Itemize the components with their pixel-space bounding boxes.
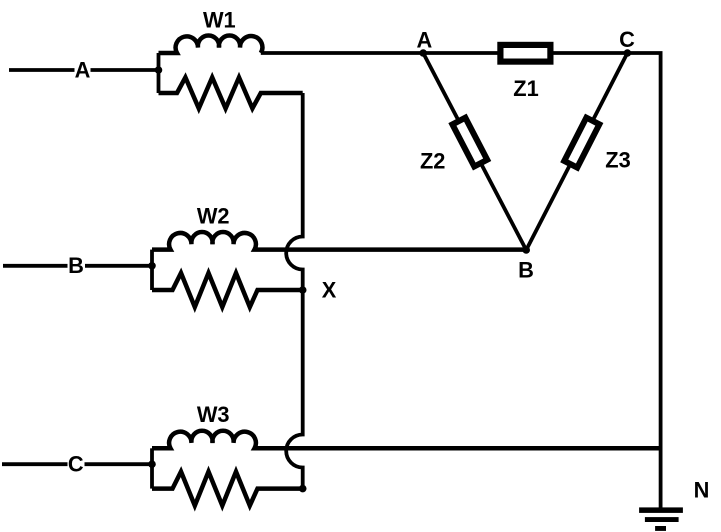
impedance Z2	[452, 118, 487, 167]
svg-text:B: B	[518, 257, 534, 282]
svg-text:Z3: Z3	[605, 148, 630, 173]
svg-text:Z2: Z2	[420, 149, 445, 174]
node junction dot at W3 resistor output	[299, 485, 307, 493]
wire phase C input right segment	[85, 462, 153, 466]
wire W3 left stub	[150, 448, 154, 488]
wattmeter W3 potential resistor	[152, 472, 303, 506]
ground symbol bar 3	[655, 526, 666, 531]
wire top bus from W1 coil to right corner and down to ground	[261, 53, 661, 508]
node junction dot at W2 input	[148, 262, 156, 270]
ground symbol bar 1	[639, 507, 683, 513]
wattmeter W3 current coil and wire to right bus	[152, 431, 661, 449]
wire W1 left stub	[157, 53, 161, 93]
ground symbol bar 2	[645, 517, 679, 522]
svg-text:X: X	[322, 278, 337, 303]
svg-text:Z1: Z1	[513, 76, 538, 101]
node dot B (delta)	[522, 246, 530, 254]
svg-text:N: N	[694, 477, 710, 502]
svg-text:C: C	[68, 452, 84, 477]
node junction dot X	[299, 286, 307, 294]
wattmeter W1 current coil	[159, 35, 263, 53]
wire phase C input left segment	[2, 462, 68, 466]
wattmeter W1 potential resistor	[159, 77, 303, 108]
wattmeter W2 current coil and wire to node B	[152, 232, 526, 250]
wire phase B input right segment	[85, 264, 152, 268]
svg-text:A: A	[75, 57, 91, 82]
delta edge C-B	[526, 53, 627, 250]
wire phase A input right segment	[91, 68, 159, 72]
delta edge A-B	[423, 53, 526, 250]
wire W2 left stub	[150, 250, 154, 290]
svg-text:W3: W3	[197, 402, 230, 427]
node dot C (delta)	[624, 49, 632, 57]
node junction dot at W3 input	[148, 460, 156, 468]
wattmeter W2 potential resistor	[152, 273, 303, 307]
impedance Z1	[500, 45, 550, 62]
svg-text:W1: W1	[203, 8, 236, 33]
node junction dot at W1 input	[155, 66, 163, 74]
svg-text:A: A	[417, 28, 433, 53]
svg-text:W2: W2	[197, 204, 230, 229]
svg-text:C: C	[619, 27, 635, 52]
node dot A (delta)	[419, 49, 427, 57]
wire middle vertical from W1 resistor with hops over W2 and W3 wires	[286, 93, 303, 489]
wire phase A input left segment	[9, 68, 75, 72]
svg-text:B: B	[68, 253, 84, 278]
impedance Z3	[564, 118, 599, 168]
wire phase B input left segment	[3, 264, 68, 268]
